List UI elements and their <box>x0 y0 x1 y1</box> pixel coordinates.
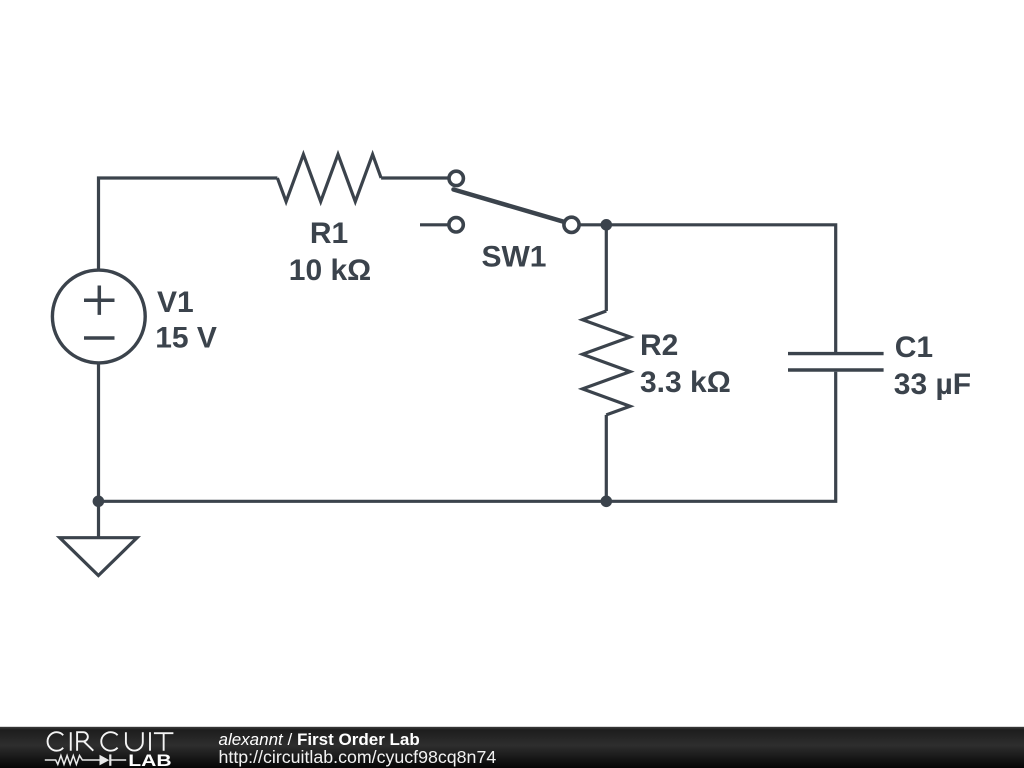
wire bottom rail and C1 bottom corner <box>98 372 835 502</box>
svg-text:SW1: SW1 <box>481 241 546 274</box>
logo resistor-diode squiggle <box>45 754 126 765</box>
logo CIRCUIT lettering <box>48 732 174 751</box>
logo LAB text <box>128 752 171 768</box>
label C1 value <box>894 331 971 401</box>
svg-text:10 kΩ: 10 kΩ <box>289 254 371 287</box>
wire stub to SW1 lower terminal <box>420 223 448 226</box>
resistor R2 <box>583 311 631 415</box>
label V1 value <box>155 286 217 355</box>
svg-text:C1: C1 <box>895 331 933 364</box>
wire junction down to R2 <box>605 225 608 311</box>
label R2 value <box>640 329 731 399</box>
voltage source V1 <box>52 270 145 363</box>
footer url text <box>219 747 497 767</box>
wire SW1 common to C1 top corner <box>579 225 836 352</box>
label R1 value <box>289 217 371 287</box>
node junction R2/rail <box>601 496 613 508</box>
resistor R1 <box>277 154 381 201</box>
node junction V1/ground/rail <box>93 496 105 508</box>
wire R2 bottom to rail <box>605 415 608 501</box>
svg-text:3.3 kΩ: 3.3 kΩ <box>640 366 731 399</box>
wire R1 to SW1 top terminal <box>381 176 448 179</box>
capacitor C1 <box>788 354 884 370</box>
ground <box>60 538 137 576</box>
switch SW1 <box>449 171 579 232</box>
svg-text:LAB: LAB <box>128 752 171 768</box>
svg-text:15 V: 15 V <box>155 322 217 355</box>
node junction SW1/R2/C1 <box>601 219 613 231</box>
footer title text <box>219 730 420 749</box>
svg-text:http://circuitlab.com/cyucf98c: http://circuitlab.com/cyucf98cq8n74 <box>219 747 497 767</box>
svg-text:V1: V1 <box>157 286 194 319</box>
svg-text:R2: R2 <box>640 329 678 362</box>
wire V1 bottom through rail to ground <box>97 363 100 538</box>
wire top-left corner V1 to R1 <box>99 178 278 271</box>
label SW1 <box>481 241 546 274</box>
svg-text:33 µF: 33 µF <box>894 368 971 401</box>
svg-text:R1: R1 <box>310 217 348 250</box>
footer bar <box>0 727 1024 768</box>
